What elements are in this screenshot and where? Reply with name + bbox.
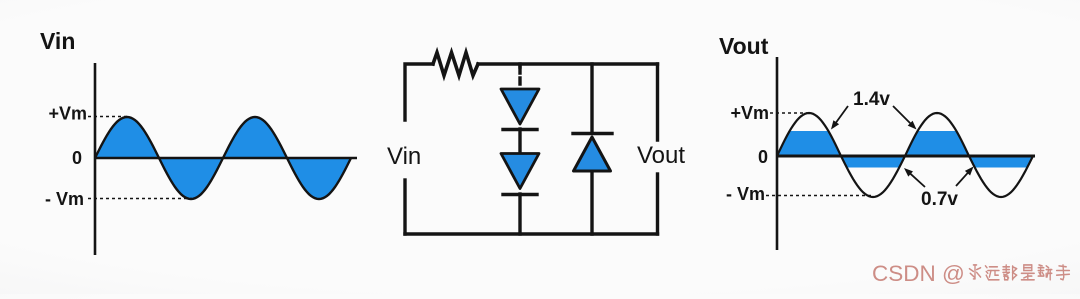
svg-text:+Vm: +Vm	[730, 103, 769, 123]
svg-text:+Vm: +Vm	[48, 104, 87, 124]
svg-text:Vin: Vin	[40, 28, 75, 54]
svg-text:0.7v: 0.7v	[921, 189, 958, 210]
svg-text:0: 0	[758, 147, 768, 167]
svg-text:0: 0	[72, 148, 82, 168]
svg-text:- Vm: - Vm	[726, 184, 765, 204]
svg-text:- Vm: - Vm	[45, 189, 84, 209]
svg-text:Vout: Vout	[719, 33, 769, 59]
svg-text:Vout: Vout	[637, 142, 685, 169]
svg-text:CSDN @: CSDN @	[872, 261, 965, 286]
svg-text:Vin: Vin	[387, 143, 421, 170]
svg-text:1.4v: 1.4v	[853, 89, 890, 110]
